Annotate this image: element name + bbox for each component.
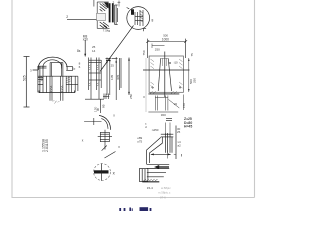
- elbow detail: arm top lines: [147, 164, 170, 177]
- right detail: top main dim line: [146, 39, 187, 58]
- right detail: vertical centreline: [164, 52, 166, 98]
- svg-text:75: 75: [190, 53, 194, 57]
- svg-text:8: 8: [152, 18, 154, 22]
- page border bottom: [12, 197, 255, 199]
- stem dim arrowheads: [106, 60, 117, 63]
- right detail: right lower dim: [183, 95, 185, 111]
- elbow detail: base hatch: [143, 179, 157, 181]
- svg-text:x20: x20: [83, 38, 88, 42]
- svg-text:b: b: [74, 67, 76, 71]
- dim line vertical x=119.5: [120, 58, 121, 90]
- bottom caption (cut off at page edge): [119, 207, 151, 211]
- dim line vertical x=129: [128, 58, 130, 96]
- bottom circle detail: leader diagonal: [105, 152, 116, 159]
- elbow detail: flow arrow in arm: [154, 165, 169, 169]
- elbow detail: body diagonal walls: [147, 137, 163, 164]
- bottom-centre detail: inner arc: [101, 119, 108, 129]
- top-centre section detail: outline: [94, 0, 110, 29]
- main view: body left block extra line: [45, 76, 47, 92]
- equals mark above elbow: [166, 119, 172, 121]
- elbow detail: pipe top ext lines: [165, 123, 170, 134]
- elbow detail: inner dim arrows: [151, 153, 171, 155]
- main view: left inlet pipe/flange: [38, 66, 47, 93]
- right detail: leg leader diagonal: [169, 100, 180, 109]
- bottom-centre detail: centre cross: [84, 118, 101, 125]
- right detail: right dim line: [188, 58, 190, 92]
- right detail: funnel left line: [158, 58, 160, 91]
- svg-text:150: 150: [182, 103, 186, 108]
- right detail: tank box outline: [149, 56, 183, 92]
- long balloon leader diagonal: [100, 26, 134, 72]
- right detail: lower ext lines: [155, 96, 168, 111]
- svg-text:a2: a2: [178, 144, 182, 148]
- balloon detail circle: [127, 7, 150, 30]
- svg-text:1000: 1000: [162, 38, 169, 42]
- vertical dim below gland: [100, 99, 102, 113]
- svg-text:25: 25: [111, 64, 115, 68]
- balloon detail: inner part: [135, 10, 143, 26]
- top-centre section detail: lower hatch: [100, 22, 109, 28]
- svg-text:8s: 8s: [77, 49, 81, 53]
- svg-text:o75: o75: [137, 139, 142, 143]
- svg-text:n250: n250: [152, 128, 159, 132]
- svg-text:2: 2: [66, 15, 68, 19]
- elbow detail: left flange of arm: [139, 169, 148, 182]
- top-centre section detail: left leader: [67, 18, 97, 20]
- main view: right subassembly gland: [85, 58, 104, 100]
- svg-text:525: 525: [23, 75, 27, 81]
- main view: bottom hatch block: [53, 100, 60, 103]
- svg-text:i10: i10: [174, 60, 178, 64]
- top-centre section detail: upper hatch: [100, 4, 109, 12]
- right detail: secondary dim: [152, 44, 165, 49]
- right detail: corner mark: [144, 29, 147, 32]
- main view: bonnet centre block: [50, 63, 63, 76]
- svg-text:250: 250: [155, 47, 160, 51]
- stem dim extension lines x=107,110: [107, 57, 116, 100]
- right detail: funnel right line: [168, 58, 171, 91]
- top-centre section detail: dark double bars: [109, 3, 111, 22]
- main view: lower flange line with hooks: [39, 91, 75, 93]
- right detail: lower dim line: [148, 111, 178, 113]
- main view: stem hatch right: [61, 86, 63, 93]
- bottom-centre detail: outer arc: [99, 115, 111, 129]
- elbow detail: vertical pipe: [161, 133, 174, 153]
- right detail: bottom edge thick: [148, 93, 179, 95]
- right detail: bottom hatch above edge: [150, 91, 177, 93]
- small dash right: [127, 8, 130, 9]
- svg-text:I: I: [181, 153, 182, 158]
- svg-text:2: 2: [113, 1, 115, 5]
- svg-text:m.58pic.c: m.58pic.c: [158, 191, 171, 195]
- main view: bonnet dome inner arc: [43, 60, 62, 69]
- top-centre section detail: upper dark wedge: [104, 3, 109, 9]
- svg-text:15-4: 15-4: [147, 186, 153, 190]
- main view: left tick and label: [33, 69, 38, 71]
- main view: central stem lines: [50, 76, 63, 101]
- stacked dim text block right of elbow top: [184, 117, 192, 128]
- svg-text:85: 85: [101, 104, 105, 108]
- balloon detail: hatch: [140, 11, 143, 22]
- bottom circle detail: dashed circle: [94, 164, 111, 181]
- bottom-centre detail: small part: [98, 130, 112, 150]
- bottom circle detail: dark bar: [94, 170, 109, 173]
- page border left: [11, 0, 13, 198]
- svg-text:a5: a5: [174, 102, 178, 106]
- balloon detail: dark block top-left: [131, 9, 134, 15]
- stem dim top dashes: [106, 58, 118, 60]
- main view: gland hatch: [89, 65, 99, 86]
- main view: right flange hatch: [66, 77, 71, 83]
- svg-text:II: II: [143, 95, 145, 99]
- svg-text:w.58pic: w.58pic: [161, 186, 171, 190]
- main view: stem hatch left: [50, 86, 52, 93]
- watermark rows: [158, 186, 171, 200]
- main view: right flange block: [66, 67, 78, 93]
- svg-text:7.5kg: 7.5kg: [103, 29, 111, 33]
- elbow detail: right boundary line: [175, 126, 177, 160]
- svg-text:500: 500: [163, 34, 168, 38]
- elbow detail: base dark line: [142, 181, 159, 183]
- main view: overall height dimension line: [24, 57, 30, 108]
- svg-text:25: 25: [177, 130, 181, 134]
- svg-text:2.81155: 2.81155: [45, 139, 49, 152]
- main view: body left hatch: [38, 76, 43, 82]
- main view: bonnet dome outer arc: [38, 57, 67, 70]
- page border right: [254, 0, 256, 198]
- svg-text:305: 305: [116, 75, 120, 80]
- bottom circle detail: vertical line: [101, 164, 103, 181]
- faint extension line x=146: [145, 58, 147, 112]
- main view: flange joint line: [38, 75, 78, 77]
- svg-text:250: 250: [129, 94, 133, 99]
- svg-text:300: 300: [161, 113, 166, 117]
- svg-text:105: 105: [110, 75, 114, 80]
- svg-text:07-6: 07-6: [160, 195, 166, 199]
- right detail: corner hatches: [151, 59, 183, 88]
- main view: upper leader line with arrow: [84, 40, 86, 57]
- small structure below gland: [103, 94, 109, 100]
- bottom-centre detail: diagonal tick: [102, 146, 107, 151]
- right detail: horizontal centreline: [143, 69, 190, 71]
- top-centre section detail: right lines: [115, 5, 118, 25]
- svg-text:14: 14: [92, 49, 96, 53]
- top-centre section detail: top dim ticks: [118, 1, 121, 7]
- svg-text:H=45: H=45: [184, 125, 192, 129]
- svg-text:250: 250: [192, 78, 196, 83]
- right detail: inner top verticals: [161, 58, 169, 66]
- svg-text:750: 750: [142, 50, 146, 55]
- elbow detail: centre cross: [168, 151, 176, 159]
- top-centre section detail: grey insert square: [97, 13, 106, 20]
- right detail: bolt dots: [152, 87, 153, 88]
